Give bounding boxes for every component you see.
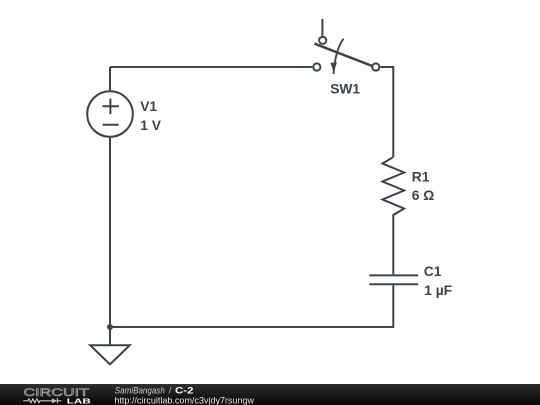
svg-text:http://circuitlab.com/c3vjdy7r: http://circuitlab.com/c3vjdy7rsungw (114, 395, 254, 405)
svg-text:6 Ω: 6 Ω (412, 188, 435, 203)
svg-text:1 µF: 1 µF (424, 283, 452, 298)
svg-text:LAB: LAB (67, 397, 92, 405)
svg-text:SW1: SW1 (330, 82, 360, 97)
svg-text:SamiBangash: SamiBangash (115, 386, 165, 396)
svg-text:C-2: C-2 (175, 386, 194, 396)
svg-text:C1: C1 (424, 264, 442, 279)
svg-text:R1: R1 (412, 169, 430, 184)
svg-text:V1: V1 (140, 99, 157, 114)
svg-text:1 V: 1 V (140, 118, 162, 133)
